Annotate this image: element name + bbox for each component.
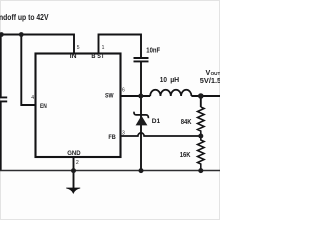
node dot FB divider (198, 134, 203, 139)
resistor R2 16K (198, 136, 205, 171)
wire SW to inductor (121, 95, 151, 97)
ground rail (0, 170, 220, 172)
border frame (1, 1, 220, 220)
svg-text:SW: SW (105, 93, 114, 100)
capacitor CIN plates (0, 97, 7, 101)
svg-text:FB: FB (108, 134, 116, 141)
wire BST (99, 35, 142, 58)
svg-text:1: 1 (102, 45, 105, 51)
wire FB with hop over diode (121, 133, 201, 136)
svg-text:3: 3 (122, 130, 125, 136)
wire VOUT divider top lead (200, 96, 202, 107)
node dot divider gnd (198, 168, 203, 173)
svg-text:GND: GND (67, 150, 81, 157)
svg-text:ndoff up to 42V: ndoff up to 42V (0, 12, 49, 22)
capacitor C3 10nF plates (134, 58, 149, 61)
node dot SW (138, 94, 143, 99)
svg-text:D1: D1 (152, 118, 161, 125)
ground symbol (66, 188, 80, 193)
svg-text:10nF: 10nF (146, 48, 160, 55)
svg-text:2: 2 (76, 160, 79, 166)
svg-text:ST: ST (97, 53, 104, 60)
wire top rail VIN (0, 35, 74, 54)
wire input cap feed (0, 35, 2, 98)
svg-text:IN: IN (70, 53, 77, 60)
node dot VIN left (0, 32, 4, 37)
wire diode D1 vertical (140, 96, 142, 171)
svg-text:10: 10 (160, 75, 167, 84)
node dot GND rail (71, 168, 76, 173)
svg-text:5: 5 (77, 45, 80, 51)
wire inductor to VOUT (191, 95, 220, 97)
resistor R1 84K (198, 107, 205, 136)
svg-text:16K: 16K (180, 152, 191, 159)
wire BST cap to SW node (140, 61, 142, 96)
op-amp U1 IC body (36, 54, 121, 158)
svg-text:EN: EN (40, 103, 47, 110)
node dot diode gnd (139, 168, 144, 173)
node dot EN tap (19, 32, 24, 37)
svg-text:µH: µH (170, 75, 179, 84)
svg-text:B: B (91, 53, 95, 60)
node dot VOUT (198, 93, 204, 99)
wire GND pin stub (73, 157, 75, 188)
wire EN feed (21, 35, 35, 106)
svg-text:84K: 84K (181, 119, 192, 126)
diode D1 schottky symbol (134, 112, 148, 119)
inductor L1 10uH (150, 90, 191, 96)
svg-text:5V/1.5A: 5V/1.5A (200, 76, 220, 85)
wire input cap to ground (0, 101, 2, 170)
svg-text:6: 6 (122, 87, 125, 93)
svg-text:4: 4 (31, 95, 34, 101)
